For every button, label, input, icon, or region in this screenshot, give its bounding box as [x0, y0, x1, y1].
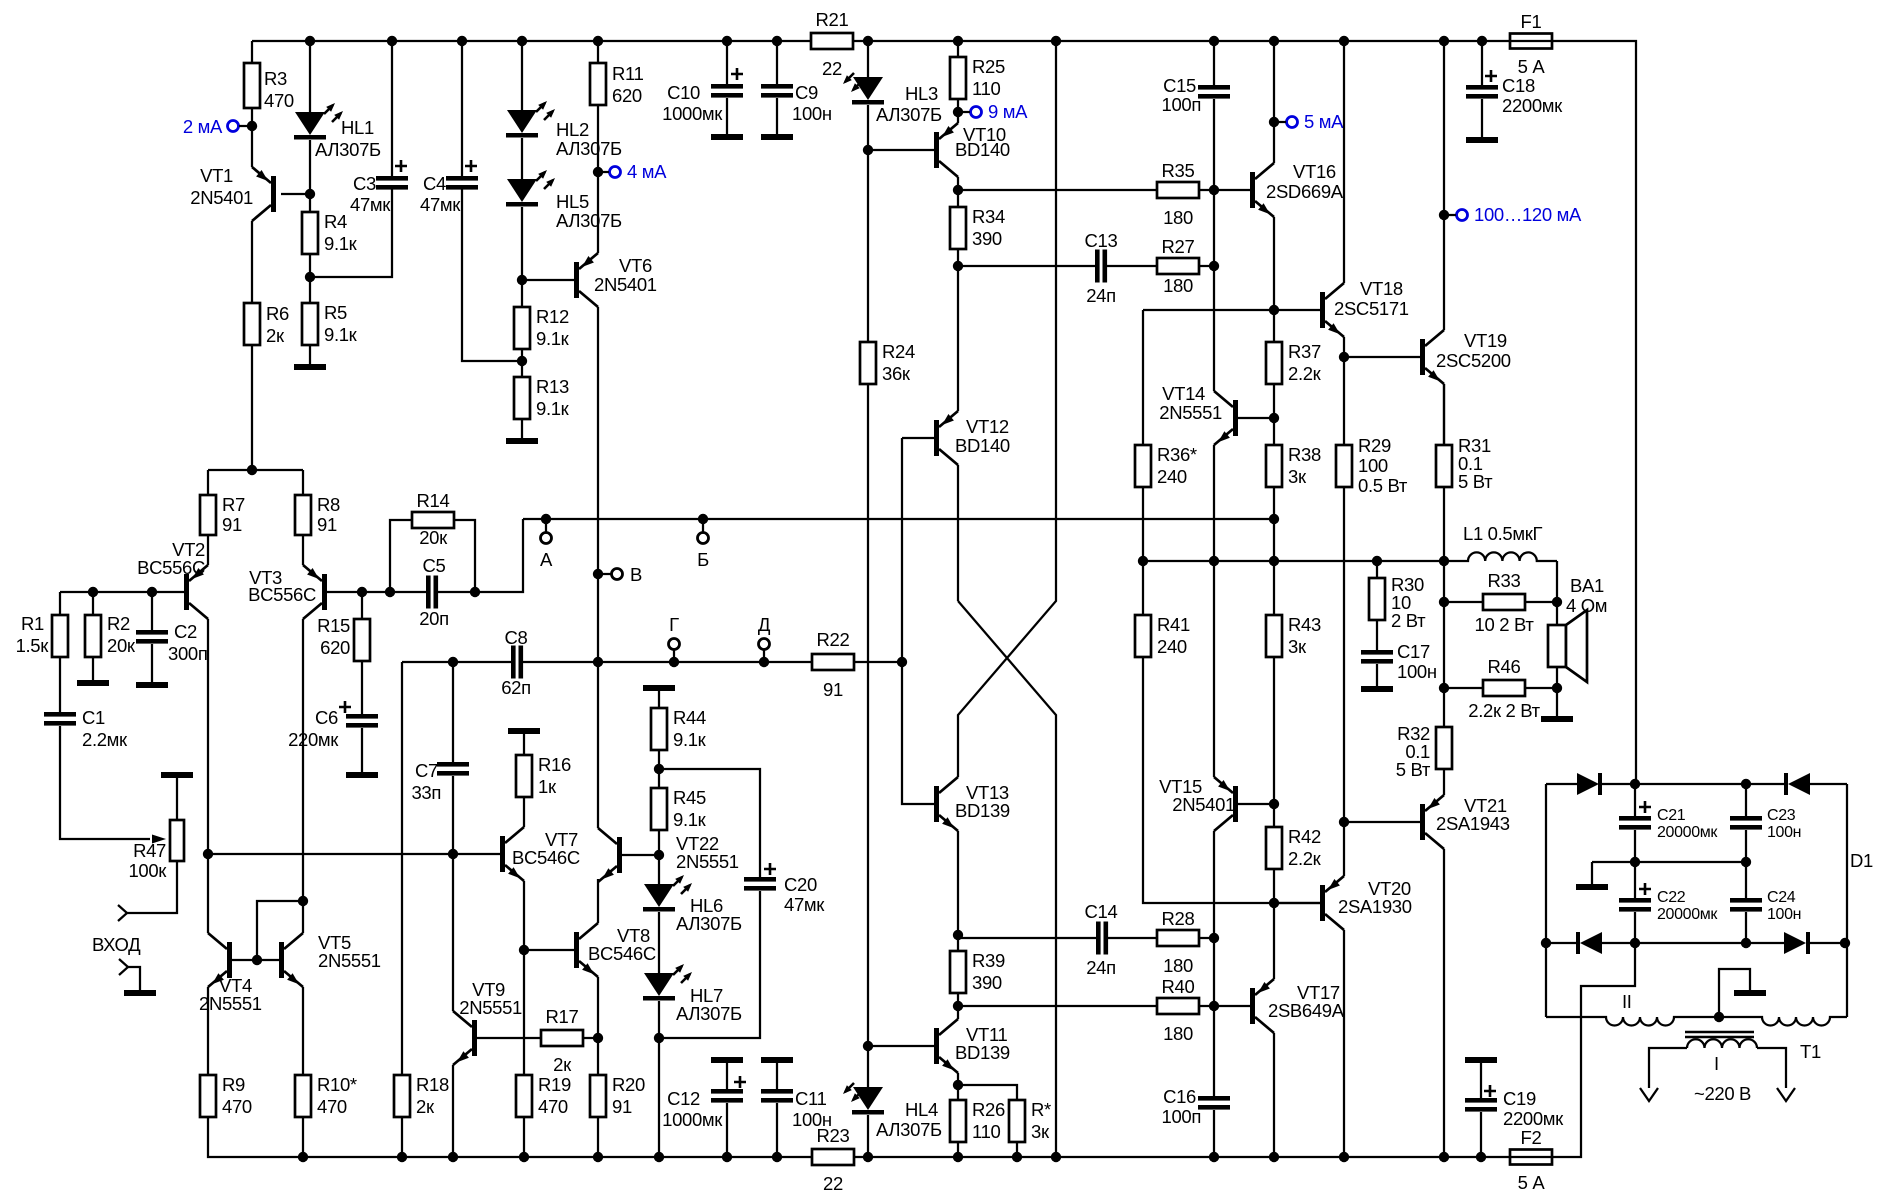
node VT19 base [1339, 352, 1349, 362]
svg-text:HL2: HL2 [556, 119, 589, 140]
svg-text:180: 180 [1163, 955, 1193, 976]
resistor R42 [1273, 804, 1275, 827]
svg-text:9.1к: 9.1к [324, 324, 358, 345]
node 9 mA test point [953, 107, 963, 117]
svg-text:33п: 33п [411, 782, 441, 803]
node R12/R13/C4 [517, 356, 527, 366]
transistor VT11 BD139 [868, 1045, 934, 1047]
svg-text:R40: R40 [1162, 976, 1195, 997]
svg-text:2 мА: 2 мА [183, 116, 223, 137]
resistor R23 [812, 1149, 854, 1165]
resistor R1 [59, 592, 61, 615]
wire VT1 base [281, 193, 310, 195]
test point V [593, 569, 603, 579]
svg-text:R36*: R36* [1157, 444, 1197, 465]
mains lead left [1649, 1048, 1687, 1088]
svg-text:5 мА: 5 мА [1304, 111, 1344, 132]
svg-text:5 А: 5 А [1518, 56, 1546, 77]
svg-text:C13: C13 [1085, 230, 1118, 251]
svg-text:R*: R* [1031, 1099, 1051, 1120]
svg-text:~220 В: ~220 В [1694, 1083, 1751, 1104]
resistor R5 [309, 277, 311, 303]
svg-text:C7: C7 [415, 760, 438, 781]
svg-text:R27: R27 [1162, 236, 1195, 257]
node 2 mA test point [247, 121, 257, 131]
svg-text:HL5: HL5 [556, 191, 589, 212]
svg-text:АЛ307Б: АЛ307Б [876, 104, 942, 125]
svg-text:T1: T1 [1800, 1041, 1821, 1062]
resistor R36* [1142, 310, 1144, 445]
svg-text:47мк: 47мк [350, 194, 391, 215]
svg-text:R43: R43 [1288, 614, 1321, 635]
svg-text:C24: C24 [1767, 889, 1796, 906]
ground below R5 [294, 364, 326, 370]
svg-text:АЛ307Б: АЛ307Б [876, 1119, 942, 1140]
svg-text:470: 470 [538, 1096, 568, 1117]
resistor R14 20k [385, 587, 395, 597]
ground below R13 [506, 438, 538, 444]
wire VT3 base line [327, 591, 426, 593]
svg-text:R46: R46 [1488, 656, 1521, 677]
svg-text:BC556C: BC556C [248, 584, 316, 605]
resistor R20 [597, 1038, 599, 1075]
svg-text:20к: 20к [419, 527, 448, 548]
node C7 bottom / base bus [448, 849, 458, 859]
resistor R34 [957, 190, 959, 207]
wire VT4/VT5 base tie [232, 959, 279, 961]
transistor VT3 BC556C [302, 535, 304, 565]
svg-text:2.2к 2 Вт: 2.2к 2 Вт [1468, 700, 1540, 721]
test point A [541, 514, 551, 524]
svg-text:20к: 20к [107, 635, 136, 656]
node R22 / VT12-VT13 base column [897, 657, 907, 667]
svg-text:2SA1943: 2SA1943 [1436, 813, 1510, 834]
svg-text:R47: R47 [133, 840, 166, 861]
svg-text:R37: R37 [1288, 341, 1321, 362]
wire VT12/VT13 base column [902, 438, 934, 804]
svg-text:4 Ом: 4 Ом [1566, 595, 1607, 616]
wire VT6 collector bus down [597, 307, 599, 828]
svg-text:100н: 100н [1767, 824, 1801, 841]
input connector pin [118, 905, 127, 921]
svg-text:9.1к: 9.1к [673, 729, 707, 750]
node 100..120 mA test point [1439, 210, 1449, 220]
transformer core [1685, 1031, 1754, 1033]
fuse F1 5A [1510, 34, 1552, 49]
capacitor C18 2200uF [1481, 41, 1483, 85]
node 5 mA test point [1269, 117, 1279, 127]
svg-text:47мк: 47мк [420, 194, 461, 215]
svg-text:2N5551: 2N5551 [1159, 402, 1222, 423]
svg-text:C15: C15 [1163, 75, 1196, 96]
wire top rail after fuse F1 to right bus [1552, 41, 1636, 784]
LED HL3 AL307B [867, 41, 869, 77]
secondary center tap to ground [1714, 1012, 1724, 1022]
svg-text:22: 22 [822, 58, 842, 79]
svg-text:620: 620 [612, 85, 642, 106]
svg-text:1.5к: 1.5к [16, 635, 50, 656]
svg-text:VT14: VT14 [1162, 383, 1205, 404]
resistor R33 10 2W [1444, 561, 1483, 602]
node HL7 bottom / C20 bottom [654, 1033, 664, 1043]
svg-text:R6: R6 [266, 303, 289, 324]
svg-text:2SC5171: 2SC5171 [1334, 298, 1409, 319]
svg-text:R15: R15 [317, 615, 350, 636]
svg-text:100п: 100п [1162, 1106, 1201, 1127]
resistor R7 [207, 470, 209, 495]
svg-text:R10*: R10* [317, 1074, 357, 1095]
node C5/R14 right [470, 587, 480, 597]
svg-text:C3: C3 [353, 173, 376, 194]
svg-text:R9: R9 [222, 1074, 245, 1095]
fuse F2 5A [1510, 1150, 1552, 1165]
svg-text:47мк: 47мк [784, 894, 825, 915]
node feedback line A-B [1269, 514, 1279, 524]
svg-text:R5: R5 [324, 302, 347, 323]
svg-text:9.1к: 9.1к [536, 398, 570, 419]
resistor R30 [1372, 556, 1382, 566]
resistor R26 [957, 1085, 959, 1100]
svg-text:2SA1930: 2SA1930 [1338, 896, 1412, 917]
node VT13 emitter / R39 / C14 [953, 930, 963, 940]
resistor R40 [958, 1005, 1157, 1007]
node R44/R45/C20 top [654, 764, 664, 774]
svg-text:180: 180 [1163, 1023, 1193, 1044]
wire C15 bus down to VT14 collector [1213, 190, 1215, 266]
transistor VT7 BC546C [500, 836, 505, 872]
midpoint ground line [1592, 861, 1746, 863]
svg-text:Б: Б [697, 549, 709, 570]
potentiometer R47 100k [170, 820, 184, 861]
svg-text:100н: 100н [1767, 906, 1801, 923]
node R36/R41 output line [1138, 556, 1148, 566]
svg-text:2N5551: 2N5551 [199, 993, 262, 1014]
capacitor C5 20p [426, 576, 431, 609]
svg-text:2SB649A: 2SB649A [1268, 1000, 1345, 1021]
wire base bus to VT7 [208, 853, 500, 855]
capacitor C22 20000uF [1634, 862, 1636, 898]
resistor R9 [200, 1075, 216, 1117]
svg-text:C12: C12 [667, 1088, 700, 1109]
svg-text:180: 180 [1163, 207, 1193, 228]
LED HL4 AL307B [867, 1046, 869, 1087]
bridge left AC column [1545, 784, 1547, 1017]
transistor VT14 2N5551 [1213, 266, 1215, 391]
svg-text:R1: R1 [21, 613, 44, 634]
svg-text:240: 240 [1157, 636, 1187, 657]
svg-text:BC546C: BC546C [512, 847, 580, 868]
svg-text:62п: 62п [501, 677, 531, 698]
wire positive supply rail (top) [252, 40, 1510, 42]
resistor R25 [957, 41, 959, 57]
svg-text:1000мк: 1000мк [662, 1109, 723, 1130]
resistor R21 [811, 33, 853, 49]
capacitor C14 24p [958, 937, 1096, 939]
capacitor C11 100n [761, 1057, 793, 1063]
resistor R39 [957, 935, 959, 951]
svg-text:R44: R44 [673, 707, 706, 728]
svg-text:9.1к: 9.1к [673, 809, 707, 830]
svg-text:D1: D1 [1850, 850, 1873, 871]
svg-text:R3: R3 [264, 68, 287, 89]
svg-text:VT6: VT6 [619, 255, 652, 276]
input ground pin [119, 959, 128, 975]
transistor VT16 2SD669A [1250, 172, 1255, 208]
wire crossover VT12 collector to bottom rail [958, 601, 1056, 1157]
LED HL1 AL307B [309, 41, 311, 112]
transistor VT9 2N5551 [452, 854, 454, 1011]
svg-text:2.2к: 2.2к [1288, 848, 1322, 869]
resistor R24 [867, 150, 869, 342]
svg-text:2N5551: 2N5551 [459, 997, 522, 1018]
svg-text:C19: C19 [1503, 1088, 1536, 1109]
svg-text:2к: 2к [416, 1096, 435, 1117]
capacitor C19 2200uF [1465, 1057, 1497, 1063]
svg-text:470: 470 [222, 1096, 252, 1117]
transformer T1 primary I winding [1687, 1039, 1757, 1048]
capacitor C17 100n [1361, 650, 1393, 655]
svg-text:R7: R7 [222, 494, 245, 515]
svg-text:470: 470 [264, 90, 294, 111]
svg-text:2N5401: 2N5401 [190, 187, 253, 208]
svg-text:R35: R35 [1162, 160, 1195, 181]
node R17 / VT8 emitter [593, 1033, 603, 1043]
svg-text:C14: C14 [1085, 901, 1118, 922]
transistor VT12 BD140 [902, 437, 934, 439]
svg-text:20000мк: 20000мк [1657, 906, 1718, 923]
svg-text:II: II [1622, 991, 1632, 1012]
junction dots on top rail [305, 36, 315, 46]
resistor R29 [1343, 357, 1345, 445]
node VT11 emitter / R26 / R* [953, 1080, 963, 1090]
svg-text:C22: C22 [1657, 889, 1686, 906]
node VT18 base line [1269, 305, 1279, 315]
node VT14 base [1269, 413, 1279, 423]
svg-text:R41: R41 [1157, 614, 1190, 635]
svg-text:R45: R45 [673, 787, 706, 808]
svg-text:3к: 3к [1031, 1121, 1050, 1142]
resistor R3 [251, 41, 253, 63]
bridge right AC column [1846, 784, 1848, 1017]
test point D [759, 657, 769, 667]
wire VT16 collector to top rail [1273, 41, 1275, 122]
wire VT17 collector to rail [1273, 1033, 1275, 1157]
svg-text:R20: R20 [612, 1074, 645, 1095]
svg-text:R8: R8 [317, 494, 340, 515]
transistor VT2 BC556C [207, 535, 209, 565]
resistor R45 [651, 788, 667, 830]
capacitor C7 33p [448, 657, 458, 667]
svg-text:24п: 24п [1086, 285, 1116, 306]
transistor VT5 2N5551 [302, 901, 304, 933]
svg-text:2200мк: 2200мк [1502, 95, 1563, 116]
wire C8 line from R18 [402, 661, 511, 663]
svg-text:VT1: VT1 [200, 165, 233, 186]
svg-text:R33: R33 [1488, 570, 1521, 591]
svg-text:110: 110 [972, 78, 1001, 99]
node R34 / C13 line [953, 261, 963, 271]
svg-text:390: 390 [972, 228, 1002, 249]
svg-text:R28: R28 [1162, 908, 1195, 929]
capacitor C2 300p [147, 587, 157, 597]
wire output node line [1143, 560, 1444, 562]
svg-text:100п: 100п [1162, 94, 1201, 115]
svg-text:10 2 Вт: 10 2 Вт [1475, 614, 1535, 635]
capacitor C6 220uF [346, 714, 378, 719]
svg-text:R23: R23 [817, 1125, 850, 1146]
svg-text:BD139: BD139 [955, 800, 1010, 821]
transistor VT20 2SA1930 [1274, 902, 1320, 904]
svg-text:R18: R18 [416, 1074, 449, 1095]
wire mirror base to VT3 collector [257, 901, 303, 960]
node VT20 base [1269, 898, 1279, 908]
svg-text:2SC5200: 2SC5200 [1436, 350, 1511, 371]
svg-text:R16: R16 [538, 754, 571, 775]
transistor VT6 2N5401 [522, 279, 574, 281]
capacitor C21 20000uF [1634, 784, 1636, 816]
svg-text:АЛ307Б: АЛ307Б [556, 210, 622, 231]
svg-text:В: В [630, 564, 642, 585]
svg-text:2N5551: 2N5551 [676, 851, 739, 872]
node R35/VT16 base [1209, 185, 1219, 195]
LED HL2 AL307B [521, 41, 523, 110]
svg-text:91: 91 [317, 514, 337, 535]
svg-text:36к: 36к [882, 363, 911, 384]
svg-text:R21: R21 [816, 9, 849, 30]
wire crossover top rail to VT13 collector [958, 41, 1056, 777]
node C8 right / VT6 bus [593, 657, 603, 667]
resistor R4 [309, 194, 311, 212]
svg-text:R22: R22 [817, 629, 850, 650]
test point B [698, 514, 708, 524]
resistor R18 [401, 662, 403, 1075]
capacitor C12 1000uF [711, 1057, 743, 1063]
node VT20 emitter / VT21 base / R29 [1339, 817, 1349, 827]
transistor VT1 2N5401 [251, 126, 253, 167]
resistor R17 2k [477, 1037, 541, 1039]
svg-text:C2: C2 [174, 621, 197, 642]
svg-text:91: 91 [222, 514, 242, 535]
svg-text:C21: C21 [1657, 807, 1686, 824]
svg-text:4 мА: 4 мА [627, 161, 667, 182]
svg-text:F1: F1 [1521, 11, 1542, 32]
svg-text:R25: R25 [972, 56, 1005, 77]
capacitor C8 62p [511, 646, 516, 679]
svg-text:C6: C6 [315, 707, 338, 728]
svg-text:ВХОД: ВХОД [92, 934, 141, 955]
svg-text:R2: R2 [107, 613, 130, 634]
resistor R10* [295, 1075, 311, 1117]
node VT7 emitter / VT8 base [519, 945, 529, 955]
svg-text:L1 0.5мкГ: L1 0.5мкГ [1463, 523, 1542, 544]
svg-text:1000мк: 1000мк [662, 103, 723, 124]
svg-text:620: 620 [320, 637, 350, 658]
svg-text:2200мк: 2200мк [1503, 1108, 1564, 1129]
resistor R* 3k [958, 1085, 1017, 1100]
resistor R38 [1273, 418, 1275, 445]
node VT1 base / HL1 cathode [305, 189, 315, 199]
svg-text:5 Вт: 5 Вт [1458, 471, 1493, 492]
svg-text:470: 470 [317, 1096, 347, 1117]
capacitor C1 2.2uF [44, 712, 76, 717]
transistor VT15 2N5401 [1213, 561, 1215, 777]
svg-text:C10: C10 [667, 82, 700, 103]
node VT10 collector / R34 / R35 [953, 185, 963, 195]
svg-text:C23: C23 [1767, 807, 1796, 824]
resistor R12 [521, 280, 523, 307]
svg-text:А: А [540, 549, 553, 570]
svg-text:R24: R24 [882, 341, 915, 362]
capacitor C24 100n [1745, 862, 1747, 898]
svg-text:110: 110 [972, 1121, 1001, 1142]
svg-text:300п: 300п [168, 643, 207, 664]
svg-text:24п: 24п [1086, 957, 1116, 978]
svg-text:C11: C11 [795, 1088, 827, 1109]
svg-text:АЛ307Б: АЛ307Б [315, 139, 381, 160]
resistor R2 [88, 587, 98, 597]
svg-text:R38: R38 [1288, 444, 1321, 465]
svg-text:BD140: BD140 [955, 139, 1010, 160]
svg-text:100к: 100к [128, 860, 167, 881]
transistor VT10 BD140 [868, 149, 934, 151]
svg-text:2.2к: 2.2к [1288, 363, 1322, 384]
svg-text:I: I [1714, 1053, 1719, 1074]
resistor R13 [521, 361, 523, 377]
capacitor C23 100n [1745, 784, 1747, 816]
resistor R15 [357, 587, 367, 597]
svg-text:2 Вт: 2 Вт [1391, 610, 1426, 631]
svg-text:9.1к: 9.1к [324, 233, 358, 254]
resistor R31 [1443, 384, 1445, 445]
resistor R41 [1135, 615, 1151, 657]
mains lead right [1757, 1048, 1786, 1088]
svg-text:R29: R29 [1358, 435, 1391, 456]
node R31 / L1 [1439, 556, 1449, 566]
svg-text:R42: R42 [1288, 826, 1321, 847]
transistor VT13 BD139 [934, 786, 939, 822]
node 4 mA test point [593, 167, 603, 177]
svg-text:VT19: VT19 [1464, 330, 1507, 351]
capacitor C4 47uF [461, 41, 463, 176]
node VT15 base / R43 / R42 [1269, 799, 1279, 809]
svg-text:91: 91 [612, 1096, 632, 1117]
node R27 / C15 bus [1209, 261, 1219, 271]
transistor VT19 2SC5200 [1344, 356, 1420, 358]
transistor VT18 2SC5171 [1143, 309, 1320, 311]
svg-text:BA1: BA1 [1570, 575, 1604, 596]
capacitor C9 100n [776, 41, 778, 84]
svg-text:2N5551: 2N5551 [318, 950, 381, 971]
wire feedback line A-B [523, 518, 1274, 520]
LED HL6 AL307B [644, 884, 674, 907]
svg-text:VT12: VT12 [966, 416, 1009, 437]
transistor VT17 2SB649A [1250, 988, 1255, 1024]
svg-text:5 Вт: 5 Вт [1396, 759, 1431, 780]
wire VT1 collector node to R7/R8 [208, 469, 303, 471]
transistor VT8 BC546C [524, 949, 574, 951]
node VT10 base / R24 [863, 145, 873, 155]
svg-text:3к: 3к [1288, 466, 1307, 487]
svg-text:2N5401: 2N5401 [1172, 794, 1235, 815]
svg-text:2к: 2к [553, 1054, 572, 1075]
transistor VT21 2SA1943 [1344, 821, 1420, 823]
resistor R6 [244, 303, 260, 345]
resistor R28 [1157, 930, 1199, 946]
bottom rail junction dots [1051, 1152, 1061, 1162]
svg-text:Г: Г [669, 614, 679, 635]
svg-text:R14: R14 [417, 490, 450, 511]
svg-text:C17: C17 [1397, 641, 1430, 662]
